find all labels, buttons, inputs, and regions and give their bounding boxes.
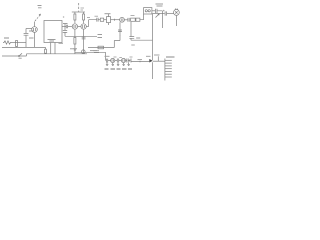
wire (vertical stub): [157, 56, 159, 61]
supply feed 2 (dashed): [78, 3, 80, 12]
resistor R3 (vertical above Q2): [74, 14, 76, 20]
wire: [115, 60, 117, 62]
connector pin 3: [165, 65, 172, 67]
connector J1 (vertical bus): [164, 59, 166, 81]
wire: [124, 19, 127, 21]
speaker LS1: [174, 10, 180, 16]
wire: [74, 12, 76, 23]
capacitor C1: [24, 33, 29, 35]
wire (box output to C2): [64, 24, 66, 30]
wire: [25, 35, 27, 47]
trimmer VR1: [82, 50, 86, 54]
wire (elbow up to mid line): [89, 20, 97, 27]
ground G4: [117, 63, 119, 66]
wire: [111, 19, 120, 21]
capacitor C5: [97, 18, 98, 22]
label under line: [93, 51, 99, 53]
IF transformer T2 (box): [144, 8, 152, 14]
label near line end: [98, 35, 103, 38]
label row (values under detector): [105, 68, 133, 70]
resistor R8: [136, 18, 140, 21]
junction tick: [114, 19, 116, 21]
wire: [108, 60, 111, 62]
capacitor C7 (output coupling): [165, 11, 167, 15]
wire: [167, 13, 174, 15]
connector pin 7: [165, 76, 172, 78]
capacitor C10: [106, 59, 107, 63]
wire (Q1 collector up): [34, 22, 36, 27]
wire: [64, 32, 66, 36]
wire (Q2 emitter down): [74, 29, 76, 37]
capacitor C13: [130, 59, 131, 63]
label above Q5: [114, 56, 117, 58]
wire (second feed down): [130, 22, 132, 37]
wire: [153, 60, 165, 62]
wire: [126, 60, 127, 62]
transistor Q2: [72, 24, 77, 29]
wire (cap feed down col): [119, 22, 121, 40]
label S1 (below): [19, 57, 22, 59]
wire (box bottom legs): [51, 43, 55, 54]
wire: [16, 46, 18, 49]
connector pin 1: [165, 59, 172, 61]
rail (bottom left w/ switch): [2, 55, 27, 57]
capacitor C14 (supply decoupling): [156, 9, 157, 13]
transistor Q1: [32, 27, 38, 33]
transistor Q5: [111, 58, 115, 62]
label above C10: [105, 55, 110, 57]
label above: [90, 50, 97, 52]
wire (node to C1): [25, 29, 27, 34]
capacitor C6: [128, 18, 129, 22]
label at box bottom right: [59, 42, 64, 44]
label above C12: [130, 56, 133, 58]
connector pin 6: [165, 73, 172, 75]
wire (vertical right of diode): [161, 14, 163, 29]
ground G3: [112, 63, 114, 66]
wire: [68, 26, 72, 28]
wire (top rail): [72, 11, 85, 13]
label above C11: [119, 56, 122, 58]
label above T1: [105, 13, 111, 15]
wire (tap tick): [139, 61, 141, 63]
label C1 value: [29, 37, 34, 39]
label supply 2: [81, 8, 85, 10]
label C9: [136, 37, 140, 39]
connector pin 4: [165, 68, 172, 70]
wire: [153, 13, 165, 15]
label above connector: [166, 56, 175, 58]
rail step: [26, 54, 28, 56]
transformer T1 (interstage): [107, 17, 111, 23]
wire (Q3 output right): [86, 26, 88, 28]
capacitor C8 (in vertical): [118, 30, 122, 32]
wire (speaker down): [175, 15, 177, 26]
diode arrow D1: [156, 14, 160, 18]
wire: [104, 19, 107, 21]
resistor R9 (rail link): [45, 47, 47, 49]
wire (Q7 down): [152, 62, 154, 79]
wire (Q2 to Q3): [78, 26, 81, 28]
transistor Q3: [81, 24, 86, 29]
capacitor C11: [117, 59, 118, 63]
wire (Q3 emitter down): [83, 29, 85, 54]
wire (mid bias line): [65, 35, 97, 37]
wire (row to output stage): [131, 61, 149, 63]
resistor R1 (input series): [3, 41, 12, 44]
supply feed (dashed arrow): [35, 15, 40, 21]
label above stub: [154, 54, 160, 56]
capacitor C3: [66, 25, 67, 29]
label top right (two lines): [156, 4, 164, 6]
label above R7: [131, 15, 135, 17]
wire (signal to Q2): [62, 26, 66, 28]
junction dot: [120, 35, 121, 36]
rail (bottom mid): [27, 53, 88, 55]
label plus: [163, 10, 165, 12]
connector pin 2: [165, 62, 172, 64]
rail 1 (upper common): [2, 46, 44, 48]
label at box top right: [63, 23, 68, 25]
resistor R2 (vertical): [16, 41, 18, 47]
wire: [140, 14, 144, 20]
capacitor C9: [129, 37, 134, 39]
resistor R7: [131, 18, 136, 21]
resistor R5 (vertical): [74, 38, 76, 45]
transistor Q7 (power, filled): [149, 59, 152, 63]
wire: [12, 42, 26, 44]
transistor Q6: [121, 58, 125, 62]
wire: [128, 60, 130, 62]
wire (long vertical to output stage): [152, 14, 154, 61]
capacitor C2: [63, 31, 67, 33]
label above elbow: [87, 17, 90, 19]
wire: [74, 44, 76, 54]
wire (rail to right): [131, 38, 153, 40]
resistor R10: [98, 46, 104, 49]
resistor R6: [100, 18, 103, 21]
line (AGC return): [88, 47, 114, 49]
line (detector feed): [75, 51, 106, 53]
wire (Q1 emitter down to rail): [34, 32, 36, 47]
wire (T2 right): [152, 10, 155, 12]
label inside box: [48, 40, 56, 42]
label above tick: [138, 59, 143, 61]
ground G6: [127, 63, 129, 66]
label C1: [29, 30, 34, 32]
connector pin 5: [165, 71, 172, 73]
label before C5: [95, 15, 99, 17]
wire (down to detector row): [105, 52, 107, 60]
label VR1: [70, 48, 77, 50]
wire: [119, 60, 122, 62]
label below: [131, 44, 135, 46]
resistor R4 (vertical above Q3): [83, 14, 85, 20]
label supply: [38, 6, 42, 8]
module box (tuner block): [44, 21, 62, 43]
label plus above C2: [63, 16, 65, 18]
switch S1: [18, 55, 19, 56]
ground G2: [106, 63, 108, 66]
label R1: [4, 37, 9, 39]
wire (L to AGC): [114, 41, 120, 48]
wire: [83, 12, 85, 23]
wire: [98, 19, 100, 21]
capacitor C12: [127, 59, 128, 63]
transistor Q4: [120, 17, 125, 22]
label above Q7: [146, 55, 151, 57]
wire: [157, 11, 162, 14]
ground G5: [122, 63, 124, 66]
ground tick G1: [73, 49, 77, 50]
capacitor C4 (across bias line): [82, 37, 86, 39]
wire (C1 top to Q1 base): [26, 28, 32, 30]
